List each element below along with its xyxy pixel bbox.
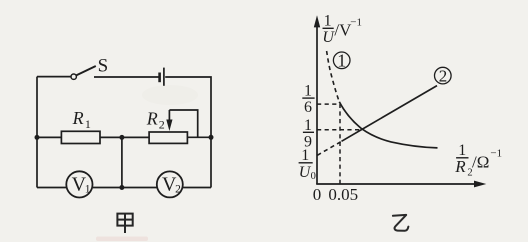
curve 1 solid flattening part: [339, 102, 437, 148]
wire: circuit top from corner to switch: [37, 76, 71, 78]
svg-text:S: S: [98, 56, 109, 77]
caption Jia (甲) drawn strokes: [117, 214, 132, 233]
svg-text:2: 2: [175, 183, 181, 195]
junction node left: [35, 135, 40, 140]
caption Yi (乙) drawn strokes: [393, 215, 409, 231]
x-axis: [316, 183, 476, 185]
svg-text:1: 1: [304, 83, 312, 100]
rheostat wiper arrowhead: [166, 120, 172, 132]
voltmeter V1 circle: [66, 171, 92, 197]
svg-text:6: 6: [304, 99, 312, 116]
svg-text:2: 2: [159, 117, 165, 131]
dashed horizontal at 1/6: [317, 103, 340, 105]
svg-text:1: 1: [301, 147, 309, 164]
x-axis arrowhead: [474, 181, 486, 188]
circled 2 marker: [435, 67, 452, 84]
svg-text:0: 0: [311, 171, 316, 182]
wire: switch to battery: [94, 76, 159, 78]
line 2 solid: [342, 86, 438, 142]
svg-text:/Ω: /Ω: [472, 153, 489, 172]
svg-text:0.05: 0.05: [328, 185, 358, 204]
wire: circuit left vertical: [36, 77, 38, 188]
svg-text:R: R: [72, 108, 84, 128]
svg-text:1: 1: [304, 117, 312, 134]
dashed vertical at 0.05: [339, 104, 341, 184]
rheostat wiper arrow shaft and tap wire: [169, 110, 197, 137]
dashed horizontal at 1/9: [317, 129, 362, 131]
svg-text:1: 1: [324, 13, 332, 30]
svg-text:0: 0: [313, 185, 322, 204]
wire: bottom: [37, 187, 211, 189]
svg-text:1: 1: [337, 51, 346, 71]
svg-text:R: R: [454, 157, 466, 176]
svg-text:1: 1: [85, 117, 91, 131]
wire: middle vertical branch: [121, 137, 123, 187]
svg-text:1: 1: [85, 183, 91, 195]
line 2 dashed extrapolation: [317, 141, 341, 155]
resistor R1 box: [61, 131, 100, 143]
svg-text:−1: −1: [350, 17, 362, 29]
wire: middle row with resistors: [37, 136, 211, 138]
junction node bottom: [119, 185, 124, 190]
rheostat R2 box: [149, 132, 187, 143]
svg-text:R: R: [146, 109, 158, 129]
y-axis arrowhead: [314, 15, 320, 27]
wire: battery to top-right corner and right vertical: [165, 77, 211, 188]
svg-text:2: 2: [439, 66, 448, 85]
junction node right: [209, 135, 214, 140]
y-axis: [316, 26, 318, 184]
battery short thick plate: [158, 73, 161, 83]
switch S open circle: [71, 74, 76, 79]
junction node middle: [119, 135, 124, 140]
scan artifact: faint gray blotch: [142, 85, 198, 105]
voltmeter V2 circle: [157, 171, 183, 197]
circled 1 marker: [333, 52, 350, 69]
curve 1 dashed steep part: [327, 51, 340, 102]
scan artifact: faint pink smudge: [96, 237, 148, 242]
svg-text:−1: −1: [490, 147, 502, 159]
switch S blade: [76, 66, 96, 75]
battery long thin plate: [163, 68, 165, 86]
